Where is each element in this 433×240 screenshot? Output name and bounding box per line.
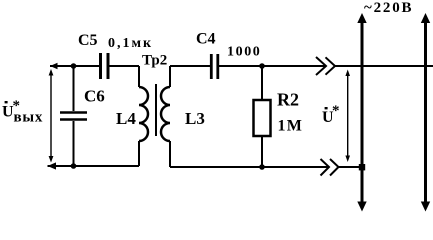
mains line left (phase) — [357, 13, 366, 212]
wire top chevron to right edge — [335, 65, 433, 67]
label U* — [322, 103, 340, 126]
svg-text:1М: 1М — [278, 118, 304, 135]
svg-text:C6: C6 — [84, 87, 105, 106]
transformer Tp2: winding L4 — [139, 66, 148, 166]
svg-text:C4: C4 — [196, 31, 216, 48]
svg-text:L3: L3 — [185, 109, 205, 128]
label U*вых — [2, 98, 43, 126]
node: junction dot C6 top — [71, 63, 77, 69]
connector chevrons top wire — [316, 57, 335, 75]
node: junction dot R2 bottom — [259, 164, 265, 170]
svg-text:C5: C5 — [78, 32, 98, 49]
node: junction dot C6 bottom — [71, 163, 77, 169]
mains line right (neutral) — [421, 13, 430, 212]
wire bottom-left with arrowhead — [48, 162, 140, 169]
svg-text:*: * — [332, 103, 340, 119]
wire bottom: L3 to chevron — [170, 166, 329, 168]
svg-text:L4: L4 — [116, 109, 136, 128]
connector chevrons bottom wire — [321, 159, 339, 176]
wire bottom chevron to mains — [339, 166, 363, 168]
svg-text:Тр2: Тр2 — [142, 53, 167, 69]
wire top-left with arrowhead — [50, 63, 139, 70]
capacitor C5 — [101, 53, 109, 79]
capacitor C4 — [211, 54, 218, 79]
resistor R2 — [254, 66, 271, 167]
svg-text:0,1мк: 0,1мк — [108, 36, 153, 51]
capacitor C6 — [60, 66, 87, 166]
node: junction at mains — [359, 164, 365, 170]
wire L3 top to C4 — [170, 65, 210, 67]
transformer Tp2: core — [155, 84, 157, 136]
wire C4 to chevron — [219, 65, 326, 67]
svg-text:R2: R2 — [277, 90, 299, 110]
transformer Tp2: winding L3 — [161, 66, 170, 167]
voltage arrow Uвых (double-headed) — [49, 69, 54, 163]
node: junction dot R2 top — [259, 63, 265, 69]
voltage arrow U* (double-headed) — [345, 70, 350, 163]
svg-text:~220В: ~220В — [364, 0, 413, 16]
svg-text:1000: 1000 — [227, 45, 261, 60]
svg-text:вых: вых — [14, 110, 44, 126]
